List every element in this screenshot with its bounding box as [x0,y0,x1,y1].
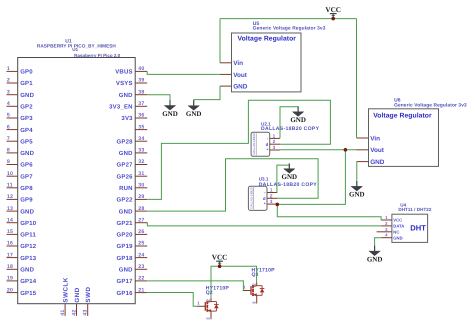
svg-text:GP7: GP7 [20,173,33,180]
svg-text:1: 1 [7,66,10,72]
U6 pin GND [357,159,385,166]
svg-text:GND: GND [119,208,133,215]
U1 pin 32 GP27 [117,159,148,169]
svg-text:4: 4 [7,101,10,107]
U1 pin 13 GND [7,206,35,216]
mcu U1 Raspberry Pi Pico body [18,38,136,303]
wire U1 pin38 GND [147,95,170,106]
svg-text:Vout: Vout [370,147,385,154]
svg-text:GP22: GP22 [117,197,134,204]
svg-text:*: * [264,202,266,207]
svg-text:DALLAS-18B20 COPY: DALLAS-18B20 COPY [261,126,320,132]
svg-text:18: 18 [7,264,13,270]
U1 pin 1 GP0 [7,66,34,76]
svg-text:1: 1 [273,133,276,138]
svg-text:*: * [267,148,269,153]
svg-text:GND: GND [119,150,133,157]
U1 pin 42 GND (bottom) [71,287,81,316]
svg-text:19: 19 [7,276,13,282]
U1 pin 15 GP11 [7,229,37,239]
svg-text:41: 41 [60,309,66,315]
svg-text:GP4: GP4 [20,127,33,134]
U1 pin 10 GP7 [7,171,34,181]
svg-text:NC: NC [393,230,399,235]
svg-text:GND: GND [20,208,34,215]
svg-text:GND: GND [119,92,133,99]
wire U2.1 GND pin [280,107,298,139]
ground for U2.1 [290,106,306,124]
svg-text:16: 16 [7,241,13,247]
svg-text:Generic Voltage Regulator 3v3: Generic Voltage Regulator 3v3 [394,103,467,109]
svg-text:DALLAS-18B20: DALLAS-18B20 [249,187,253,209]
svg-text:24: 24 [138,252,144,258]
wire U3.1 GND pin [277,165,289,192]
svg-text:GP6: GP6 [20,162,33,169]
U1 pin 26 GP20 [117,229,148,239]
svg-text:40: 40 [138,66,144,72]
U1 pin 25 GP19 [117,241,148,251]
svg-text:Raspberry Pi Pico 2.0: Raspberry Pi Pico 2.0 [74,53,121,58]
svg-text:GND: GND [370,159,385,166]
svg-text:37: 37 [138,101,144,107]
wire VCC to U5 Vin [219,19,221,63]
svg-text:VCC: VCC [212,253,228,261]
svg-text:DHT11 / DHT22: DHT11 / DHT22 [398,207,431,212]
svg-text:2: 2 [273,139,276,144]
wire Vout net to U4 VCC [277,204,381,220]
svg-text:15: 15 [7,229,13,235]
svg-text:GND: GND [74,287,81,302]
wire GP16 to Q2 gate [147,293,197,307]
svg-text:GND: GND [186,110,202,118]
U1 pin 36 3V3 [121,113,147,123]
svg-text:GP21: GP21 [117,220,134,227]
wire U6 GND [356,162,358,187]
wire VCC rail top [220,18,357,20]
wire GP21 to U4 DATA [147,223,381,226]
wire GP17 to Q3 gate [147,281,243,291]
junction Vout net at U3.1 pin3 [276,203,280,207]
svg-text:Vout: Vout [233,72,248,79]
wire Vout net down to U3.1 pin3 [277,150,345,205]
ground for U5 [186,100,202,118]
U6 pin Vout [357,147,385,154]
svg-text:3: 3 [7,89,10,95]
svg-text:21: 21 [138,287,144,293]
U1 pin 22 GP17 [117,276,148,286]
U1 pin 12 GP9 [7,194,34,204]
U1 pin 43 SWD (bottom) [83,287,93,316]
svg-text:GP28: GP28 [117,138,134,145]
wire VCC to U6 Vin [356,19,358,138]
svg-text:7: 7 [7,136,10,142]
junction VCC top [331,17,335,21]
svg-text:3: 3 [270,199,273,204]
svg-text:Vin: Vin [233,60,243,67]
svg-text:GP27: GP27 [117,162,134,169]
svg-text:8: 8 [7,148,10,154]
svg-text:26: 26 [138,229,144,235]
svg-text:2: 2 [270,193,273,198]
U4 pin 4 GND [381,233,403,241]
svg-text:22: 22 [138,276,144,282]
svg-text:GP16: GP16 [117,290,134,297]
humidity sensor U4 DHT11/DHT22 [392,202,432,242]
svg-text:30: 30 [138,183,144,189]
svg-text:GP0: GP0 [20,69,33,76]
svg-text:SWD: SWD [85,287,92,303]
U1 pin 41 SWCLK (bottom) [60,277,70,316]
U1 pin 14 GP10 [7,217,37,227]
svg-text:34: 34 [138,136,144,142]
svg-text:12: 12 [7,194,13,200]
svg-text:GP1: GP1 [20,80,33,87]
U1 pin 8 GND [7,148,35,158]
svg-text:GP2: GP2 [20,104,33,111]
U1 pin 19 GP14 [7,276,37,286]
svg-text:GP26: GP26 [117,173,134,180]
U1 pin 20 GP15 [7,287,37,297]
power VCC at transistors [212,253,228,266]
svg-text:VCC: VCC [393,218,402,223]
svg-text:U6: U6 [394,98,401,104]
svg-text:DATA: DATA [393,224,404,229]
svg-text:13: 13 [7,206,13,212]
svg-text:38: 38 [138,89,144,95]
svg-text:Voltage Regulator: Voltage Regulator [373,113,432,120]
svg-text:DALLAS-18B20 COPY: DALLAS-18B20 COPY [259,182,318,188]
svg-text:2: 2 [7,78,10,84]
U5 pin Vout [220,72,248,79]
svg-text:Generic Voltage Regulator 3v3: Generic Voltage Regulator 3v3 [253,26,326,32]
svg-text:39: 39 [138,78,144,84]
svg-text:GP10: GP10 [20,220,37,227]
wire Vout net U2.1 pin3 to U6 Vout [280,149,357,151]
svg-text:GP5: GP5 [20,138,33,145]
U1 pin 21 GP16 [117,287,148,297]
junction Vout net at U6 [344,148,348,152]
svg-text:GP20: GP20 [117,232,134,239]
svg-text:11: 11 [7,183,13,189]
svg-text:SWCLK: SWCLK [63,277,70,302]
U1 pin 2 GP1 [7,78,34,88]
svg-text:6: 6 [7,124,10,130]
svg-text:GP12: GP12 [20,243,37,250]
svg-text:GND: GND [393,235,402,240]
U5 pin Vin [220,60,243,67]
svg-text:27: 27 [138,217,144,223]
U1 pin 35 nc [135,124,147,130]
svg-text:GP8: GP8 [20,185,33,192]
svg-text:GP9: GP9 [20,197,33,204]
U4 pin 2 DATA [381,221,404,229]
U1 pin 37 3V3_EN [109,101,147,111]
svg-text:35: 35 [138,124,144,130]
U1 pin 16 GP12 [7,241,37,251]
svg-text:Vin: Vin [370,135,380,142]
wire GP22 to U2.1 DQ [147,100,330,199]
U1 pin 40 VBUS [115,66,147,76]
svg-text:GND: GND [20,267,34,274]
svg-text:3V3_EN: 3V3_EN [109,104,133,111]
svg-text:5: 5 [7,113,10,119]
svg-text:GP3: GP3 [20,115,33,122]
svg-text:RUN: RUN [119,185,133,192]
svg-text:GP11: GP11 [20,232,36,239]
U1 pin 6 GP4 [7,124,34,134]
U1 pin 27 GP21 [117,217,148,227]
temperature sensor U3.1 DALLAS-18B20 [248,177,317,211]
svg-text:VSYS: VSYS [116,80,133,87]
U1 pin 5 GP3 [7,113,34,123]
svg-text:3: 3 [273,145,276,150]
svg-text:29: 29 [138,194,144,200]
wire VCC2 to Q2 drain [211,266,220,298]
U1 pin 31 GP26 [117,171,148,181]
svg-text:GND: GND [162,110,178,118]
svg-text:43: 43 [83,309,89,315]
U1 pin 38 GND [119,89,147,99]
svg-text:9: 9 [7,159,10,165]
svg-text:U1: U1 [72,47,78,52]
wire U1 pin28 GND to U3.1 DQ [147,159,318,211]
svg-text:VCC: VCC [325,6,341,14]
U1 pin 4 GP2 [7,101,34,111]
svg-text:GP15: GP15 [20,290,37,297]
svg-text:3V3: 3V3 [121,115,133,122]
svg-text:GND: GND [349,191,365,199]
svg-text:Voltage Regulator: Voltage Regulator [238,35,297,42]
svg-text:25: 25 [138,241,144,247]
U4 pin 3 NC [377,227,400,235]
svg-text:33: 33 [138,148,144,154]
U1 pin 9 GP6 [7,159,34,169]
svg-text:GND: GND [20,92,34,99]
svg-text:10: 10 [7,171,13,177]
U4 pin 1 VCC [381,215,402,223]
regulator U6 Generic Voltage Regulator 3v3 [369,98,468,167]
svg-text:GP13: GP13 [20,255,37,262]
temperature sensor U2.1 DALLAS-18B20 [251,121,320,156]
U1 pin 39 VSYS [116,78,147,88]
U1 pin 30 RUN [119,183,147,193]
svg-text:DALLAS-18B20: DALLAS-18B20 [252,133,256,155]
ground for U4 [367,246,383,264]
power VCC top [325,6,341,19]
U1 pin 17 GP13 [7,252,37,262]
svg-text:GND: GND [233,84,248,91]
U1 pin 28 GND [119,206,147,216]
U1 pin 11 GP8 [7,183,34,193]
U1 pin 34 GP28 [117,136,148,146]
transistor Q2 HY1710P [197,285,229,319]
regulator U5 Generic Voltage Regulator 3v3 [232,21,326,92]
svg-text:31: 31 [138,171,144,177]
svg-text:17: 17 [7,252,13,258]
junction VCC transistors [218,264,222,268]
svg-text:1: 1 [270,188,273,193]
U1 pin 18 GND [7,264,35,274]
svg-text:GND: GND [20,150,34,157]
svg-text:DHT: DHT [410,224,426,233]
ground for U6 [349,181,365,199]
svg-text:Q3: Q3 [252,272,259,278]
wire U5 GND [194,86,220,106]
U1 pin 33 GND [119,148,147,158]
U1 pin 29 GP22 [117,194,148,204]
svg-text:GND: GND [282,173,298,181]
svg-text:Q2: Q2 [206,290,213,296]
transistor Q3 HY1710P [243,267,275,304]
wire VBUS to U5 Vout [147,71,220,74]
U6 pin Vin [357,135,381,142]
svg-text:GND: GND [290,116,306,124]
svg-text:23: 23 [138,264,144,270]
svg-text:GND: GND [367,255,383,263]
svg-text:GP19: GP19 [117,243,134,250]
svg-text:14: 14 [7,217,13,223]
svg-text:GP14: GP14 [20,278,37,285]
svg-text:32: 32 [138,159,144,165]
ground near U1 pin38 [162,100,178,118]
svg-text:20: 20 [7,287,13,293]
svg-text:GP17: GP17 [117,278,134,285]
U5 pin GND [220,84,248,91]
wire U4 GND [375,238,382,251]
U1 pin 24 GP18 [117,252,148,262]
svg-text:d: d [266,142,269,147]
U1 pin 23 GND [119,264,147,274]
svg-text:36: 36 [138,113,144,119]
svg-text:d: d [263,196,266,201]
svg-text:VBUS: VBUS [115,69,132,76]
U1 pin 7 GP5 [7,136,34,146]
svg-text:42: 42 [71,309,77,315]
U1 pin 3 GND [7,89,35,99]
svg-text:GND: GND [119,267,133,274]
wire VCC2 to Q3 drain [220,266,257,282]
ground for U3.1 [282,163,298,181]
svg-text:GP18: GP18 [117,255,134,262]
svg-text:28: 28 [138,206,144,212]
